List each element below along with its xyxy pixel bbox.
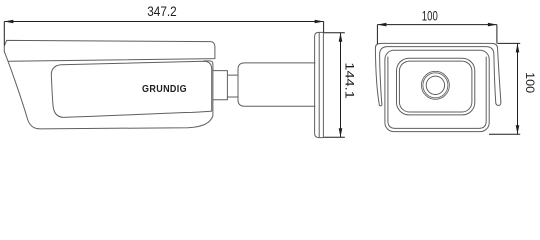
arrowhead up — [339, 33, 343, 42]
dimension 347.2 — [4, 22, 323, 46]
camera body (side view) — [4, 52, 213, 129]
extension line top — [324, 32, 345, 34]
arrowhead right — [488, 23, 497, 27]
wall plate (side view) — [315, 32, 324, 137]
mount hinge plate A — [213, 71, 228, 100]
dimension line vertical — [340, 33, 342, 137]
dimension line — [4, 21, 323, 23]
wall plate inner face line — [318, 33, 320, 138]
svg-text:GRUNDIG: GRUNDIG — [142, 84, 187, 95]
side panel inset — [51, 61, 211, 117]
extension line left — [3, 22, 5, 46]
extension line bottom — [489, 133, 520, 135]
arrowhead left — [377, 23, 386, 27]
dimension 144.1 — [324, 33, 345, 137]
sun shield inner rim — [380, 47, 496, 104]
dimension line vertical — [517, 43, 519, 134]
lens bezel outer — [397, 58, 475, 115]
arrowhead left — [4, 20, 13, 24]
extension line right — [323, 22, 325, 33]
svg-text:100: 100 — [523, 72, 535, 93]
extension line top — [498, 42, 521, 44]
arrowhead down — [339, 128, 343, 137]
lens ring inner — [423, 73, 448, 98]
lens bezel inner — [399, 61, 472, 112]
front body inner line — [388, 57, 486, 128]
dimension line — [377, 24, 497, 26]
dimension 100 vertical — [489, 43, 520, 134]
svg-text:347.2: 347.2 — [147, 3, 177, 19]
arrowhead down — [516, 125, 520, 134]
extension line bottom — [324, 136, 345, 138]
svg-text:100: 100 — [422, 9, 438, 24]
svg-text:144.1: 144.1 — [343, 62, 355, 99]
sun shield outer rim with side ears — [375, 43, 500, 105]
front body outer — [385, 50, 489, 131]
left ear bottom curve — [379, 103, 382, 106]
lens — [426, 76, 444, 94]
extension line right — [496, 25, 498, 44]
mount arm cylinder — [238, 63, 315, 106]
arrowhead right — [315, 20, 324, 24]
lens ring outer — [421, 71, 449, 99]
extension line left — [376, 25, 378, 44]
mount hinge neck B — [227, 75, 238, 97]
dimension 100 horizontal — [377, 25, 497, 44]
sun shield (side view) — [4, 40, 215, 61]
right ear bottom curve — [496, 101, 501, 105]
arrowhead up — [516, 43, 520, 52]
